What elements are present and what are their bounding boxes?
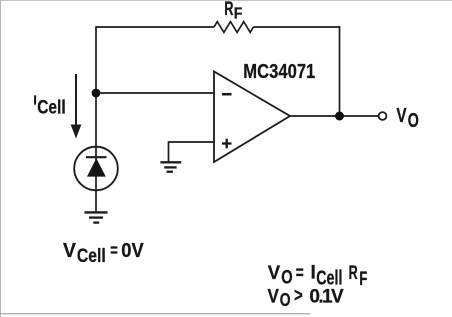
op-amp U1 (214, 72, 290, 163)
svg-text:MC34071: MC34071 (243, 60, 315, 83)
wire: left vertical from top wire through cell to ground (95, 26, 97, 211)
svg-text:=: = (110, 239, 118, 260)
output terminal (open circle) (379, 112, 387, 120)
label equation VO = ICell RF (268, 262, 368, 290)
svg-text:F: F (234, 5, 243, 22)
svg-text:>: > (294, 285, 303, 306)
current direction arrow ICell (71, 74, 82, 139)
ground (op-amp non-inverting input) (160, 162, 181, 171)
wire: non-inverting input to ground (169, 142, 215, 162)
svg-text:V: V (63, 240, 77, 262)
wire: feedback vertical drop to output node (339, 26, 341, 116)
svg-text:F: F (359, 268, 367, 290)
svg-text:V: V (396, 105, 407, 127)
wire: top feedback, left segment (96, 26, 215, 28)
svg-text:V: V (268, 263, 281, 284)
svg-text:O: O (408, 110, 419, 132)
resistor RF (214, 22, 253, 33)
svg-text:Cell: Cell (77, 245, 106, 267)
wire: top feedback, right segment (253, 26, 340, 28)
svg-text:O: O (281, 268, 292, 289)
svg-text:R: R (349, 262, 358, 284)
wire: op-amp output to terminal (290, 115, 379, 117)
svg-text:=: = (296, 263, 304, 284)
node B: output junction dot (335, 112, 344, 121)
svg-text:V: V (268, 286, 280, 307)
wire: node to inverting input (96, 92, 214, 94)
label VCell = 0V (63, 239, 144, 267)
svg-text:R: R (224, 0, 233, 20)
svg-text:O: O (280, 289, 291, 310)
node A: input junction dot (92, 89, 101, 98)
svg-text:0.1V: 0.1V (309, 286, 344, 307)
ground (below cell) (85, 212, 108, 222)
svg-text:Cell: Cell (37, 98, 65, 119)
label equation VO > 0.1V (268, 285, 345, 309)
svg-text:0V: 0V (121, 240, 144, 262)
label RF (224, 0, 242, 22)
label ICell (33, 92, 65, 118)
current source CR1 (photo cell) (74, 147, 118, 191)
label VO (396, 105, 418, 132)
svg-text:I: I (311, 262, 316, 283)
